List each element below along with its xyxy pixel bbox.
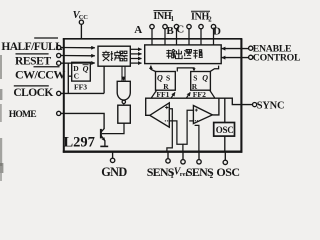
svg-text:D: D [213,25,221,37]
svg-text:Q: Q [157,74,163,83]
svg-text:A: A [134,24,142,36]
pin SYNC [253,100,285,111]
wire CLOCK [61,63,104,93]
svg-text:C: C [176,24,184,36]
pin C stem [188,29,190,45]
wire SENS2 up to comparator2 [195,125,199,151]
wire SENS1 to comparator1 + input [167,109,172,152]
wire translator to NAND gate inputs [122,66,125,81]
pin Vref [174,152,189,179]
pin GND [101,152,127,179]
wire HOME to Q1 collector [61,113,104,128]
svg-text:Q: Q [83,65,89,74]
IC body bottom edge [63,150,243,152]
变换器 glyphs (hand-drawn) [102,51,128,61]
pin HALF/FULL [57,45,61,49]
flip-flop FF3 box [72,62,91,91]
pin Vcc [73,10,89,39]
pin INH1 stem [164,29,166,45]
wire rail to FF1 R (arrow) [171,92,175,97]
pin CONTROL [221,52,301,63]
pin OSC [216,152,239,179]
wire RESET to translator [61,55,95,57]
svg-text:OSC: OSC [216,125,234,135]
换 [111,51,121,61]
wire FF2 Q up to output logic [210,66,218,72]
wire CW/CCW through FF3 to translator [61,62,95,64]
label INH1 with overline [153,11,174,23]
flip-flop FF2 [191,72,211,100]
svg-text:CLOCK: CLOCK [13,87,53,99]
wire HALF/FULL to translator [61,47,95,49]
wire Q1 base from monostable [102,123,124,133]
svg-text:C: C [74,72,79,81]
wire translator to output-logic arrows (4) [131,49,142,63]
comparator 2 (right, points right) [193,106,212,124]
svg-text:INH: INH [153,11,172,22]
svg-text:CC: CC [79,14,89,21]
svg-text:HALF/FULL: HALF/FULL [1,41,63,53]
svg-text:GND: GND [101,165,127,179]
辑 [193,50,203,59]
wire rail to FF2 R (arrow) [187,92,191,97]
output logic block 输出逻辑 [145,45,222,64]
svg-text:CONTROL: CONTROL [253,52,300,63]
pin CW/CCW [57,61,61,65]
label INH2 with overline [191,11,212,23]
wire rail down to OSC block [224,98,226,122]
transistor Q1 (HOME open-collector) [100,128,108,146]
输 [166,49,175,58]
逻 [184,50,192,59]
svg-text:HOME: HOME [9,109,37,120]
pin A stem [151,29,153,45]
svg-text:B: B [166,25,174,37]
comparator 1 (left, points left) [150,103,170,127]
wire OSC block to OSC pin [224,136,226,152]
pin INH2 stem [200,29,202,45]
monostable block (small rect) [118,105,131,123]
出 [176,49,183,58]
wire Vref to comparator2 + input [183,110,194,144]
pin CLOCK [57,91,61,95]
wire chopper rail (comparator outputs / osc) [146,98,253,115]
translator block 变换器 [98,46,130,66]
svg-text:INH: INH [191,12,210,23]
svg-text:L297: L297 [64,134,95,150]
pin ENABLE [221,43,292,54]
输出逻辑 glyphs (hand-drawn) [166,49,203,58]
wire FF1 Q up to output logic [151,67,156,72]
pin RESET [57,53,61,57]
pin HOME [57,111,61,115]
wire FF1 bottom-left to rail [151,90,156,97]
svg-text:2: 2 [210,172,214,180]
svg-text:RESET: RESET [15,55,51,67]
IC body right edge [240,39,242,153]
变 [102,51,110,61]
paper background [0,0,300,181]
oscillator block OSC [214,123,235,137]
器 [119,51,127,61]
wire Vref to comparator1 - input [169,121,183,152]
wire NAND bubble to monostable [123,104,125,106]
svg-text:OSC: OSC [216,165,239,179]
svg-text:CW/CCW: CW/CCW [15,68,65,82]
NAND gate (home detect) [117,81,130,103]
flip-flop FF1 [156,72,176,100]
wire comparator2 - input [189,120,193,122]
pin D stem [213,29,215,45]
wire comparator2 output to rail [212,98,219,115]
pin B stem [176,29,178,45]
svg-text:1: 1 [171,16,175,23]
pin SENS1 [147,152,175,180]
svg-text:SYNC: SYNC [257,100,285,111]
svg-text:2: 2 [208,17,212,24]
svg-text:FF3: FF3 [74,83,87,92]
wire S-tie FF1 to FF2 [177,68,194,72]
IC body L297 box: left edge [63,39,65,153]
svg-text:Q: Q [202,74,208,83]
IC body top edge [63,38,243,40]
wire FF2 bottom-right to rail [210,90,215,97]
pin SENS2 [186,152,214,180]
